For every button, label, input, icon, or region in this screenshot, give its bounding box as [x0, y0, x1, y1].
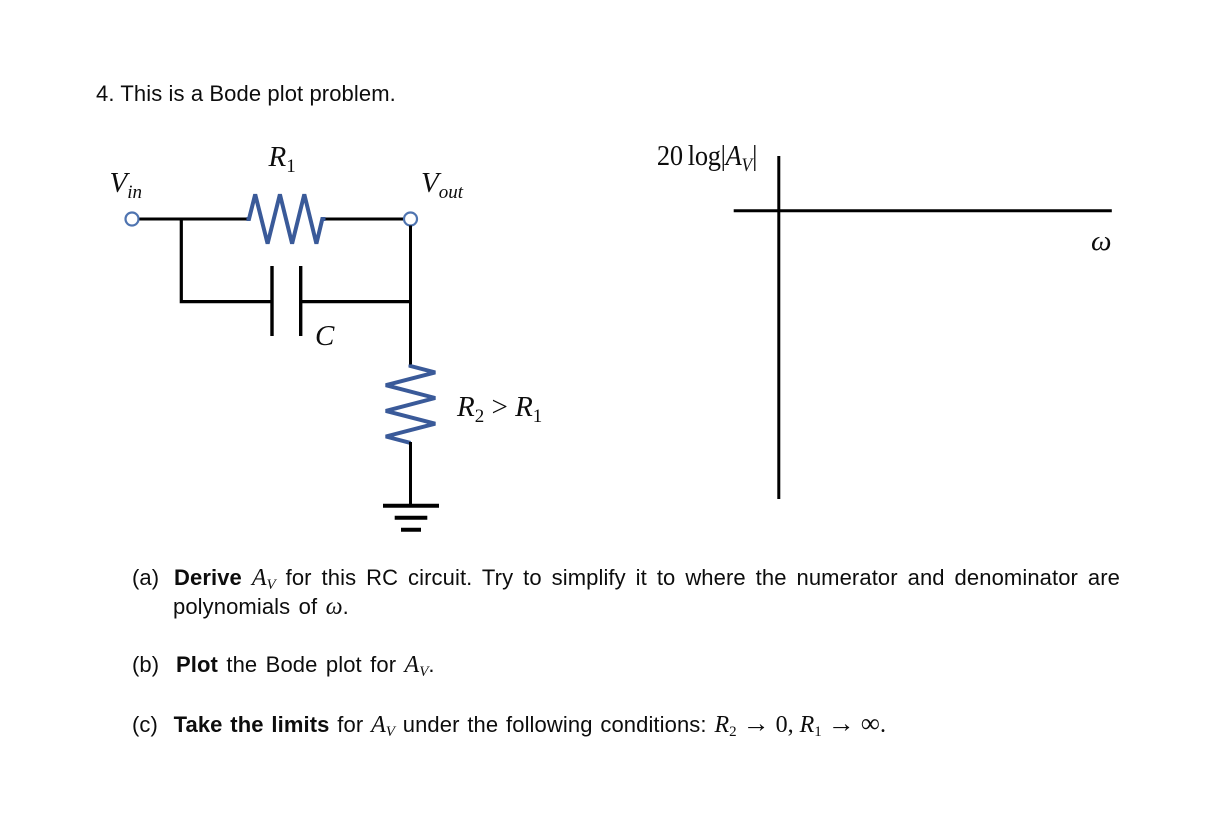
label Vout — [421, 169, 463, 207]
capacitor C left plate — [270, 266, 273, 336]
input terminal circle (Vin) — [126, 213, 139, 226]
item (a) line 1 justified — [174, 567, 1120, 596]
Bode plot horizontal axis — [734, 209, 1112, 212]
Bode plot vertical axis — [777, 156, 780, 499]
capacitor C right plate — [299, 266, 302, 336]
title: problem statement — [96, 83, 396, 105]
item (a) label — [132, 567, 159, 589]
wire Vin to R1 — [140, 218, 249, 221]
label R1 — [269, 143, 296, 181]
label C — [315, 322, 334, 350]
item (a) line 2 — [173, 596, 349, 618]
wire capacitor to output node — [301, 300, 412, 303]
item (b) — [132, 654, 435, 683]
wire junction down-left to capacitor — [181, 219, 272, 302]
label R2 > R1 — [457, 393, 542, 431]
label Vin — [110, 169, 143, 207]
wire Vout node down to R2 — [409, 226, 412, 367]
resistor R2 — [386, 365, 435, 443]
item (c) — [132, 712, 886, 743]
ground symbol — [383, 506, 439, 530]
label omega — [1091, 227, 1111, 255]
resistor R1 — [247, 194, 326, 243]
wire R1 to Vout — [326, 218, 405, 221]
output terminal circle (Vout) — [404, 213, 417, 226]
wire R2 to ground — [409, 442, 412, 506]
label 20 log|Av| — [657, 142, 757, 180]
